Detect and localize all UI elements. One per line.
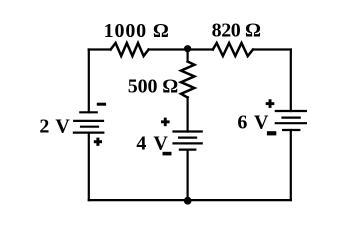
node A junction dot top xyxy=(184,45,191,52)
svg-text:500 Ω: 500 Ω xyxy=(128,76,179,98)
wire middle branch lower xyxy=(187,150,189,201)
polarity plus of V3 xyxy=(266,99,275,108)
node B junction dot bottom xyxy=(184,197,192,205)
wire left upper xyxy=(88,50,90,113)
battery V3 6V plates xyxy=(276,111,306,130)
wire top-middle segment xyxy=(149,48,213,50)
resistor R3 500 ohm vertical zigzag xyxy=(181,62,194,98)
svg-text:2 V: 2 V xyxy=(39,115,70,137)
wire right lower xyxy=(290,130,292,200)
polarity minus of V2 xyxy=(163,152,172,156)
polarity plus of V2 xyxy=(161,118,170,127)
svg-text:6 V: 6 V xyxy=(237,112,269,134)
svg-text:1000 Ω: 1000 Ω xyxy=(104,20,169,42)
wire left lower xyxy=(88,133,90,201)
wire middle branch between R3 and battery V2 xyxy=(187,97,189,131)
wire right upper xyxy=(290,50,292,112)
wire bottom xyxy=(89,199,291,201)
wire top-right segment xyxy=(253,48,291,50)
resistor R2 820 ohm zigzag xyxy=(213,43,253,56)
wire top-left segment xyxy=(89,48,111,50)
polarity minus of V1 xyxy=(97,103,106,106)
resistor R1 1000 ohm zigzag xyxy=(111,43,149,56)
battery V1 2V plates xyxy=(74,112,103,132)
svg-text:820 Ω: 820 Ω xyxy=(212,19,261,41)
battery V2 4V plates xyxy=(174,132,202,150)
svg-text:4 V: 4 V xyxy=(136,133,168,155)
polarity minus of V3 xyxy=(267,131,276,135)
wire middle branch upper xyxy=(187,50,189,62)
polarity plus of V1 xyxy=(94,138,102,146)
